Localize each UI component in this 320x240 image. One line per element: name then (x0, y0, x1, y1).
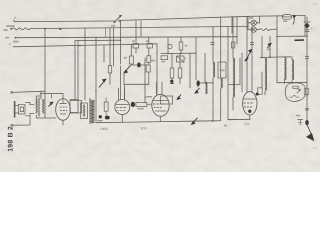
svg-text:E3V: E3V (141, 127, 148, 131)
svg-text:100Ω: 100Ω (100, 127, 108, 131)
svg-text:·: · (96, 127, 97, 131)
svg-text:7μV: 7μV (244, 122, 251, 126)
svg-text:198 B 2: 198 B 2 (7, 126, 14, 152)
